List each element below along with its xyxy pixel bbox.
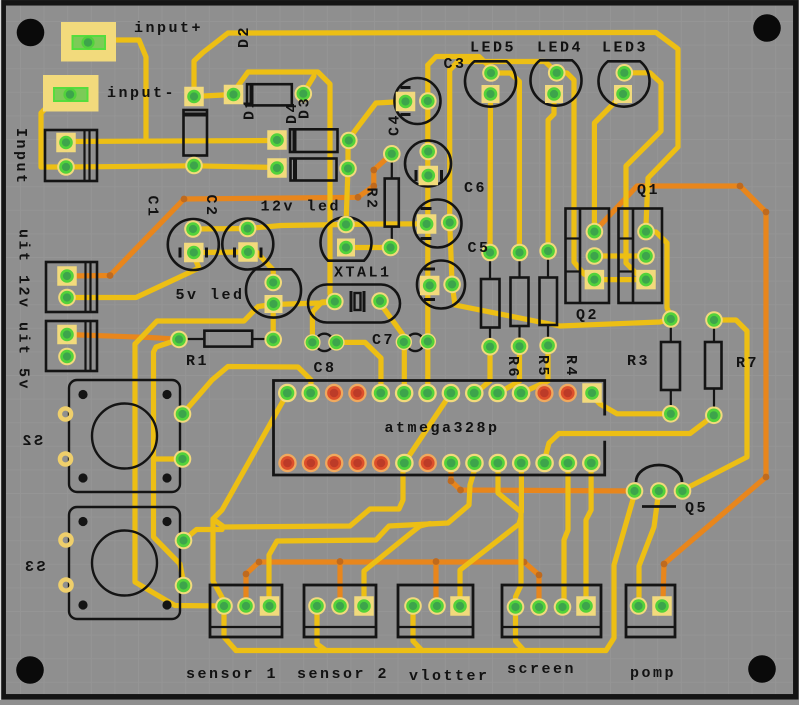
IC U1 atmega328p outline [274,381,605,476]
pad U1 bottom pin 27 [559,454,578,473]
svg-text:input+: input+ [134,20,203,37]
junction orange bend [521,559,528,566]
label LED4 [537,40,583,57]
svg-text:vlotter: vlotter [409,668,490,685]
label D4 [284,101,301,124]
pad R7 pin1 [705,311,723,329]
wire sensor2 square riser to bus [364,524,430,598]
wire R5 bottom to IC pin [498,350,520,393]
push button S2 body [69,380,180,492]
svg-text:C8: C8 [314,360,337,377]
wire XTAL right to C7 pad1 [380,303,404,342]
pad R1 pin1 [170,331,188,349]
wire vlotter square riser [460,517,521,598]
label LED5 [470,40,516,57]
capacitor C5b body [417,261,465,309]
resistor R1 lead left [187,338,204,340]
wire input- to Input pad2 [41,105,62,167]
resistor R7 lead bottom [713,389,715,410]
svg-text:Q2: Q2 [576,307,599,324]
pad uit 12v pin1 [57,266,77,286]
push button S3 body [69,507,180,619]
wire LED5 anode to R5 top [491,73,519,253]
pad C2 plus [239,220,257,238]
pad C7 pin1 [396,334,412,350]
label LED3 [602,40,648,57]
pad Q1 pin2 [637,247,655,265]
label R1 [186,353,209,370]
LED 5v body [246,269,301,317]
pad U1 bottom pin 16 [302,454,320,472]
S2 corner mark [162,473,171,482]
pad U1 bottom pin 19 [372,454,390,472]
capacitor C4 minus mark2 [401,113,411,116]
pad R1 pin2 [264,331,282,349]
pad LED4 cathode [545,85,563,103]
pad U1 top pin 10 [488,384,507,403]
label Q2 [576,307,599,324]
label C7 [372,332,395,349]
wire bus row2 sensor1 square to IC pin 23 [269,470,475,598]
pad C8 pin1 [304,334,320,350]
mounting hole bottom-left [16,656,44,684]
wire orange Q2 pad1 to pomp pad2 [594,186,766,606]
pad U1 bottom pin 15 [278,454,296,472]
resistor R3 body [661,342,680,390]
wire C5 pads link [450,223,452,285]
pad U1 top pin 5 [371,384,390,403]
wire LED4 anode to Q2 square [557,73,595,280]
resistor R4 body [540,278,558,326]
S3 corner mark [78,600,87,609]
pad sensor2 pin1 [308,597,326,615]
svg-text:R5: R5 [534,355,551,378]
label C2 [202,195,219,218]
transistor Q5 outline [636,465,682,507]
svg-text:LED3: LED3 [602,40,648,57]
resistor R2 body [385,179,399,227]
wire D2 top pad to D1 anode [194,95,233,97]
svg-text:R1: R1 [186,353,209,370]
svg-text:input-: input- [107,85,176,102]
svg-text:LED4: LED4 [537,40,583,57]
pad R6 pin1 [481,244,499,262]
wire Q2 square to Q1 square [594,277,646,282]
wire input+ to node [114,40,146,141]
capacitor C6 minus mark [415,170,418,181]
pad Input pin1 [56,133,76,153]
pad C7 pin2 [420,333,436,349]
wire C5 to R3 top long diagonal [452,284,671,326]
pad U1 top pin 11 [512,384,531,403]
wire Q1 pad1 to R3 top [646,232,671,319]
terminal block uit 5v inner line [84,321,86,371]
capacitor C5a minus mark2 [421,237,432,240]
wire capacitor column C4-C6-C5-C7 [425,65,430,393]
svg-text:uit 5v: uit 5v [15,322,32,391]
svg-text:5v led: 5v led [176,287,245,304]
label 12v led [261,199,342,216]
S2 corner mark [78,473,87,482]
wire orange sensor/vlotter/screen bus [246,562,539,607]
junction orange bend [107,272,114,279]
capacitor C2 body [222,219,273,270]
junction orange bend [181,196,188,203]
label C4 [387,113,404,136]
wire C1 minus to C2 minus [194,249,248,255]
pad R4 pin1 [539,242,557,260]
svg-text:D1: D1 [242,97,259,120]
wire screen pad1 to bottom bus [516,607,525,651]
wire D3/D4 cathode column to 12v-led anode [346,140,348,225]
wire orange net C1/uit-12v to R2 top [67,154,392,276]
junction orange bend [355,194,362,201]
label 5v led [176,287,245,304]
pad uit 5v pin2 [58,348,76,366]
pad C2 minus [238,242,258,262]
pad LED3 cathode [614,85,632,103]
wire R4 bottom to IC pin [521,349,548,393]
label R4 [562,355,579,378]
pad D1 anode [224,85,244,105]
pad LED3 anode [616,64,634,82]
S2 corner mark [78,390,87,399]
pad 5v-led anode [264,274,282,292]
svg-text:Input: Input [12,128,29,186]
resistor R1 body [204,331,252,347]
pad U1 top pin 3 [325,384,343,402]
wire D1 cathode pad stub [303,76,314,94]
SMD pad input- [43,75,99,112]
pad U1 top pin 7 [418,384,437,403]
transistor Q2 package [566,209,610,304]
wire bottom bus [236,648,606,653]
svg-text:C6: C6 [464,180,487,197]
capacitor C5a body [414,200,462,248]
resistor R7 lead top [713,326,715,342]
pad U1 top pin 6 [395,384,414,403]
pad XTAL1 pin2 [371,292,389,310]
resistor R3 lead bottom [670,390,672,408]
junction orange bend [763,209,770,216]
wire R7 top to Q5 pad3 [683,320,748,491]
label R6 [504,356,521,379]
pad screen pin2 [530,598,548,616]
pad S2 ring2 [60,453,71,464]
resistor R5 lead top [518,258,520,278]
LED LED3 body [599,61,650,106]
pad 5v-led cathode [265,295,283,313]
capacitor C5b minus mark [424,268,435,271]
resistor R7 body [705,342,722,389]
diode D3 cathode band [293,129,297,152]
pad C5a plus [417,214,437,234]
pad D3 cathode [340,132,358,150]
label sensor 2 [297,666,389,683]
pad U1 top pin 4 [348,384,366,402]
terminal block uit 12v inner line [84,262,86,312]
pad C4 minus [419,92,437,110]
pad D1 cathode [295,85,313,103]
capacitor C5a minus mark [421,207,432,210]
svg-text:S3: S3 [22,559,45,576]
label D2 [236,25,253,48]
pad uit 12v pin2 [58,289,76,307]
svg-text:screen: screen [507,661,576,678]
wire D1 cathode riser to XTAL left [235,72,335,302]
svg-text:12v led: 12v led [261,199,342,216]
wire 12v-led anode to C5 pad [346,221,427,227]
pad R4 pin2 [539,337,557,355]
wire 5v-led/XTAL bus [135,302,335,345]
pad pomp square [652,596,672,616]
pad U1 top pin 14 (square) [582,383,602,403]
wire R6 bottom to IC pin [474,350,490,393]
capacitor C5b minus mark2 [424,298,435,301]
svg-text:C7: C7 [372,332,395,349]
label R3 [627,353,650,370]
wire C5 pad riser to LED4 anode [450,62,557,223]
svg-text:R2: R2 [363,188,380,211]
svg-text:R7: R7 [736,355,759,372]
wire IC internal diagonal [404,393,451,463]
diode D3 body [290,129,338,152]
svg-text:Q5: Q5 [685,500,708,517]
diode D1 cathode band [250,84,254,105]
wire C2 minus to 5v-led anode [248,252,273,283]
pad C1 minus [184,243,204,263]
label atmega328p [385,420,500,437]
pad Q5 pin1 [626,482,644,500]
label input- [107,85,176,102]
label D1 [242,97,259,120]
wire Input pad1 to D3 anode [66,141,277,142]
junction orange bend [457,487,464,494]
wire IC pin to screen pad4 [586,467,591,606]
push button S2 plunger [92,404,157,469]
wire orange IC pin to Q5 pad1 [451,466,635,491]
pad sensor1 pin2 [237,597,255,615]
wire R1 pad vertical chain to S3 pad2 [154,339,184,585]
crystal XTAL1 body [308,285,400,323]
pad 12v-led anode [337,216,355,234]
pad U1 bottom pin 24 [489,454,508,473]
wire Q5 pad2 to pomp pad1 [639,491,659,606]
transistor Q1 package [619,209,663,304]
pad U1 bottom pin 26 [535,454,554,473]
wire LED3 anode to Q1 square [624,73,661,280]
label Input [12,128,29,186]
label sensor 1 [186,666,278,683]
capacitor C7 body [407,334,424,351]
wire IC pin1 long diagonal to sensor1 [213,396,287,606]
label C6 [464,180,487,197]
junction orange bend [337,558,344,565]
svg-text:C4: C4 [387,113,404,136]
label screen [507,661,576,678]
pad screen square [576,596,596,616]
wire 12v-led cathode to R2 bottom [346,245,391,250]
label C8 [314,360,337,377]
label Q5 [685,500,708,517]
pad Q5 pin2 [650,482,668,500]
svg-text:C3: C3 [444,56,467,73]
svg-text:C5: C5 [468,240,491,257]
junction orange bend [737,183,744,190]
pad U1 bottom pin 20 [395,454,414,473]
pad R5 pin2 [511,338,529,356]
pad vlotter pin2 [428,597,446,615]
pad R2 pin2 [382,239,400,257]
pad U1 top pin 12 [535,384,553,402]
pad C4 plus [396,92,416,112]
SMD pad input+ [61,22,116,62]
pad vlotter pin1 [404,597,422,615]
pad Q1 pin1 [637,223,655,241]
pad R7 pin2 [705,407,723,425]
diode D4 body [291,159,337,181]
capacitor C6 minus mark2 [440,170,443,181]
connector sensor 2 outline [304,585,376,637]
capacitor C2 minus mark2 [260,248,263,258]
pad sensor2 pin2 [331,597,349,615]
pad screen pin3 [554,598,572,616]
pad U1 top pin 8 [442,384,461,403]
pad U1 bottom pin 17 [325,454,343,472]
wire C1 plus to C2 plus [193,226,248,232]
wire orange uit-5v to R1 pad [67,335,179,340]
capacitor C4 minus mark [401,86,411,89]
pad S3 ring2 [60,579,71,590]
svg-text:C1: C1 [144,196,161,219]
pad C8 pin2 [328,334,344,350]
resistor R5 lead bottom [518,326,520,340]
wire D2 pad to D4 anode [194,166,277,168]
wire R1 right to 5v-led cathode [271,305,276,340]
pad C5b plus [420,276,440,296]
label uit 5v [15,322,32,391]
pad R3 pin1 [662,310,680,328]
terminal block Input inner line [83,130,85,181]
pad U1 top pin 1 [278,384,297,403]
svg-text:S2: S2 [20,433,43,450]
wire C8 pad1 to XTAL left [312,302,335,343]
pad Q1 pin3 [636,270,656,290]
capacitor C1 body [168,219,219,270]
svg-text:C2: C2 [202,195,219,218]
connector vlotter outline [398,585,473,637]
terminal block uit 12v inner line2 [89,262,91,312]
wire IC pin 24 stub [519,467,524,512]
label R2 [363,188,380,211]
svg-text:R3: R3 [627,353,650,370]
pad R2 pin1 [383,145,401,163]
pad C1 plus [184,220,202,238]
wire LED5 cathode to R6 top [487,94,493,253]
pad U1 bottom pin 18 [348,454,366,472]
wire LED3 cathode to Q2 pad1 [594,94,623,232]
pad Q5 pin3 [674,482,692,500]
pad D4 anode [267,158,287,178]
resistor R2 lead top [391,160,393,179]
terminal block uit 5v inner line2 [89,321,91,371]
LED 12v body [321,217,372,261]
wire S3 pad1 to bus [184,530,223,541]
wire uit-12v pad2 to C1 minus [67,256,199,298]
pad R5 pin1 [511,244,529,262]
svg-text:R6: R6 [504,356,521,379]
capacitor C1 minus mark [179,248,182,258]
pad U1 top pin 9 [465,384,484,403]
pad sensor1 square [260,596,280,616]
connector screen outline [502,585,601,637]
push button S3 plunger [92,531,157,596]
resistor R6 body [481,279,500,328]
resistor R4 lead top [547,257,549,278]
pad D2 anode [185,157,203,175]
connector pomp outline [626,585,675,637]
mounting hole top-right [753,14,781,42]
pad C6 minus [419,166,439,186]
wire sensor1 pad1 to bottom bus [224,606,236,651]
wire branch S2 pad2 [154,456,183,461]
wire bus row1 to IC pin 20 [213,467,403,527]
label S2 (mirrored) [20,433,43,450]
wire orange branch vlotter pad2 [433,562,438,607]
junction orange bend [536,572,543,579]
pad U1 bottom pin 21 [419,454,437,472]
label R7 [736,355,759,372]
junction orange bend [661,561,668,568]
resistor R6 lead top [489,258,491,279]
wire C7 pad1 to IC pin [402,342,407,393]
label pomp [630,665,676,682]
diode D1 body [247,84,292,105]
wire C2 plus to 12v-led anode [248,225,346,229]
pad D2 cathode [184,87,204,107]
label XTAL1 [334,265,392,282]
svg-text:LED5: LED5 [470,40,516,57]
pad S3 pin1 [175,532,193,550]
LED LED4 body [531,60,582,105]
wire IC pin to screen pad3 [563,467,569,607]
pad U1 top pin 2 [301,384,320,403]
pad Input pin2 [57,158,75,176]
pad D4 cathode [339,160,357,178]
wire C8 pad2 to IC pin [336,342,381,393]
pad R6 pin2 [481,338,499,356]
resistor R3 lead top [670,325,672,342]
label D3 [297,96,314,119]
resistor R1 lead right [252,338,268,340]
svg-text:sensor 1: sensor 1 [186,666,278,683]
terminal block Input inner line2 [88,130,90,181]
label Q1 [637,182,660,199]
terminal block Input outline [45,130,97,181]
svg-text:pomp: pomp [630,665,676,682]
pad LED4 anode [548,64,566,82]
pad C5b minus [443,276,461,294]
pad Q2 pin3 [585,270,605,290]
junction orange bend [448,478,455,485]
resistor R4 lead bottom [547,325,549,339]
mounting hole bottom-right [748,655,776,683]
connector sensor 1 outline [210,585,282,637]
wire orange branch sensor2 pad2 [337,562,342,607]
pad U1 bottom pin 23 [465,454,484,473]
diode D4 cathode band [293,159,297,181]
label vlotter [409,668,490,685]
